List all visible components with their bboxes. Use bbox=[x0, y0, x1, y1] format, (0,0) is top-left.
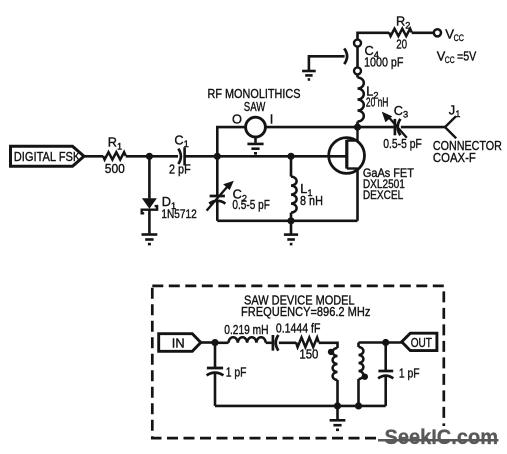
variable capacitor C2 bbox=[207, 181, 270, 213]
watermark SeekIC.com bbox=[378, 425, 504, 450]
node D junction dot (drain node) bbox=[354, 124, 361, 131]
wire coil to cap bbox=[266, 341, 272, 344]
svg-text:1N5712: 1N5712 bbox=[161, 207, 197, 221]
input tag IN bbox=[159, 334, 201, 352]
capacitor 1 pF left bbox=[207, 364, 247, 379]
svg-text:FREQUENCY=896.2 MHz: FREQUENCY=896.2 MHz bbox=[241, 304, 370, 319]
inductor L1 bbox=[291, 177, 323, 213]
transformer T1 secondary bbox=[359, 343, 368, 380]
svg-text:CC: CC bbox=[454, 33, 465, 43]
svg-text:0.5-5 pF: 0.5-5 pF bbox=[232, 197, 270, 212]
node C junction dot (L1 top) bbox=[287, 153, 294, 160]
wire C1 to node B bbox=[185, 155, 218, 158]
wire D1 to ground bbox=[148, 210, 151, 234]
svg-text:0.1444 fF: 0.1444 fF bbox=[276, 320, 321, 335]
inductor 0.219 mH bbox=[215, 322, 269, 343]
wire node D to C3 bbox=[358, 126, 394, 129]
svg-text:DEXCEL: DEXCEL bbox=[363, 188, 403, 202]
diode D1 (Schottky) bbox=[142, 194, 197, 221]
svg-text:1000 pF: 1000 pF bbox=[364, 54, 404, 69]
Vcc terminal circle bbox=[434, 27, 477, 65]
wire node B to node C (gate line) bbox=[217, 155, 291, 158]
node G junction dot (primary bottom) bbox=[334, 402, 341, 409]
svg-text:0.5-5 pF: 0.5-5 pF bbox=[383, 136, 422, 151]
wire left cap to rail bbox=[214, 373, 217, 406]
wire C4 arc to ground bbox=[309, 56, 345, 70]
wire node I down to right 1 pF cap bbox=[384, 343, 387, 371]
feedthrough capacitor C4 bbox=[344, 40, 403, 75]
svg-text:IN: IN bbox=[172, 336, 185, 351]
svg-text:20: 20 bbox=[396, 36, 407, 51]
wire IN to node F bbox=[201, 341, 215, 344]
SAW device U1 circle bbox=[208, 86, 301, 137]
wire rail up to FET source bbox=[356, 169, 359, 221]
svg-text:150: 150 bbox=[299, 347, 318, 362]
capacitor C1 bbox=[169, 132, 191, 176]
wire right cap to rail bbox=[384, 376, 387, 406]
svg-text:I: I bbox=[270, 112, 274, 127]
svg-text:1 pF: 1 pF bbox=[226, 364, 247, 379]
ground left of C4 bbox=[302, 71, 316, 80]
ground below SAW bbox=[247, 137, 263, 153]
wire secondary top to OUT bbox=[359, 341, 403, 344]
svg-text:SeekIC.com: SeekIC.com bbox=[385, 425, 499, 449]
output tag OUT bbox=[402, 333, 437, 350]
wire node F down to 1 pF cap bbox=[214, 343, 217, 368]
svg-text:CC: CC bbox=[445, 55, 455, 65]
wire cap to resistor bbox=[279, 341, 296, 344]
svg-text:COAX-F: COAX-F bbox=[433, 150, 476, 165]
resistor R2 bbox=[389, 14, 412, 52]
wire resistor to transformer primary bbox=[319, 343, 338, 348]
svg-text:500: 500 bbox=[105, 161, 125, 176]
wire node B down to C2 bbox=[216, 156, 219, 196]
node H junction dot (secondary bottom) bbox=[355, 402, 362, 409]
connector J1 bbox=[433, 102, 502, 165]
ground below model rail bbox=[330, 406, 346, 430]
node I junction dot bbox=[382, 339, 389, 346]
wire tag to R1 bbox=[84, 155, 103, 158]
ground below rail bbox=[284, 221, 298, 244]
wire node B up to SAW loop bbox=[217, 127, 245, 156]
wire C4 top to R2 bbox=[358, 33, 390, 40]
wire R2 to Vcc terminal bbox=[412, 31, 434, 34]
svg-text:8 nH: 8 nH bbox=[300, 193, 323, 208]
capacitor 0.1444 fF bbox=[273, 320, 321, 350]
svg-text:DIGITAL FSK: DIGITAL FSK bbox=[14, 149, 81, 164]
svg-text:20 nH: 20 nH bbox=[366, 94, 389, 109]
wire node C to FET gate bbox=[291, 155, 347, 158]
wire C3 to J1 bbox=[401, 126, 445, 129]
model bottom rail wire bbox=[215, 405, 386, 408]
node B junction dot bbox=[214, 153, 221, 160]
node F junction dot bbox=[211, 339, 218, 346]
bottom rail wire bbox=[217, 220, 357, 223]
wire node A down to D1 bbox=[148, 156, 151, 198]
svg-text:=5V: =5V bbox=[457, 48, 477, 63]
wire SAW output to node D bbox=[265, 126, 357, 129]
resistor R1 bbox=[103, 135, 126, 176]
capacitor 1 pF right bbox=[378, 366, 420, 381]
variable capacitor C3 bbox=[382, 103, 422, 151]
inductor L2 bbox=[358, 74, 389, 127]
dashed box SAW device model bbox=[152, 286, 444, 438]
input tag DIGITAL FSK bbox=[11, 146, 85, 166]
wire secondary to rail bbox=[357, 379, 360, 406]
svg-text:2 pF: 2 pF bbox=[169, 162, 191, 177]
transformer T1 primary bbox=[328, 348, 338, 380]
svg-text:0.219 mH: 0.219 mH bbox=[224, 322, 268, 337]
node E junction dot (L1 bottom) bbox=[287, 217, 294, 224]
wire C2 to bottom rail bbox=[216, 201, 219, 221]
svg-text:SAW: SAW bbox=[244, 99, 266, 114]
svg-text:OUT: OUT bbox=[411, 335, 432, 350]
svg-text:1 pF: 1 pF bbox=[399, 366, 420, 381]
node A junction dot bbox=[146, 153, 153, 160]
resistor 150 bbox=[296, 337, 319, 361]
wire node C down to L1 bbox=[290, 156, 293, 176]
transistor Q1 GaAs FET bbox=[329, 127, 415, 202]
wire primary to rail bbox=[336, 380, 339, 406]
ground below D1 bbox=[142, 235, 158, 245]
wire R1 to node A bbox=[126, 155, 178, 158]
wire L1 to bottom rail bbox=[290, 213, 293, 221]
svg-text:O: O bbox=[232, 112, 242, 127]
